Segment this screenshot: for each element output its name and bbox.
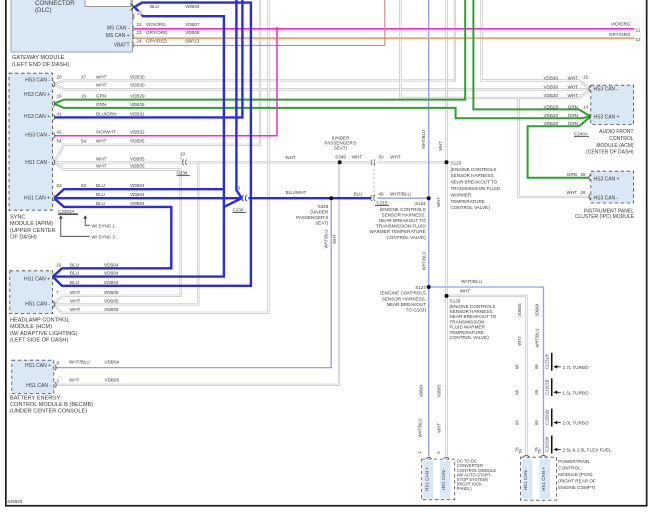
connector C215 pin 49 (371, 192, 411, 206)
svg-text:VDB05: VDB05 (104, 290, 119, 295)
ACM wire row labels (543, 75, 588, 127)
svg-text:BLU/GRN: BLU/GRN (96, 111, 116, 116)
svg-text:(ENGINE CONTROLS: (ENGINE CONTROLS (380, 291, 426, 296)
wire WHT VDB30 from top x=518.5 to IPC pin26 (519, 98, 590, 197)
svg-text:C238: C238 (177, 171, 188, 176)
svg-text:CONTROL: CONTROL (609, 136, 634, 142)
svg-text:(ENGINE CONTROLS: (ENGINE CONTROLS (380, 207, 426, 212)
svg-text:76: 76 (518, 449, 523, 454)
svg-text:VDB04: VDB04 (104, 262, 119, 267)
svg-text:C240A: C240A (574, 132, 589, 137)
svg-text:23: 23 (137, 30, 143, 35)
svg-text:TO G103): TO G103) (406, 308, 427, 313)
engine variant connector C1915B 1.5L TURBO (515, 378, 589, 396)
SYNC module (APIM) box (9, 73, 56, 240)
svg-text:HS1 CAN +: HS1 CAN + (24, 196, 50, 202)
connector C2383A (58, 209, 115, 240)
svg-text:75: 75 (537, 449, 542, 454)
svg-text:WHT: WHT (332, 234, 337, 244)
svg-text:HS1 CAN +: HS1 CAN + (424, 467, 429, 491)
svg-text:SENSOR HARNESS,: SENSOR HARNESS, (382, 296, 426, 301)
wire WHT VDB30 row3 from top x=400.4 to ACM (400, 0, 590, 98)
svg-text:W/ SYNC 3: W/ SYNC 3 (92, 234, 116, 239)
connector C238 pin 9 (233, 185, 247, 212)
svg-text:BLU: BLU (96, 192, 105, 197)
svg-text:VDB05: VDB05 (104, 298, 119, 303)
svg-text:HEADLAMP CONTROL: HEADLAMP CONTROL (10, 318, 70, 324)
svg-text:WHT: WHT (352, 154, 363, 159)
svg-text:WHT: WHT (70, 290, 81, 295)
svg-text:BLU: BLU (70, 280, 79, 285)
svg-text:(ENGINE CONTROLS: (ENGINE CONTROLS (451, 167, 497, 172)
gateway module box (left end of dash) (11, 0, 133, 68)
svg-text:53: 53 (81, 183, 87, 188)
svg-text:VIO/ORG: VIO/ORG (146, 22, 166, 27)
wire WHT VDB30 row1 SYNC pin20 turns up at x=455 (54, 0, 455, 84)
svg-text:WHT: WHT (460, 289, 471, 294)
svg-text:GATEWAY MODULE: GATEWAY MODULE (12, 55, 65, 61)
svg-text:VDB04: VDB04 (185, 4, 200, 9)
svg-text:WHT/BLU: WHT/BLU (69, 360, 90, 365)
svg-text:649993: 649993 (8, 499, 23, 504)
wire WHT VDB05 from top x=268.5 to HCM row3 (53, 0, 269, 313)
svg-text:GRY/RED: GRY/RED (146, 38, 168, 43)
svg-text:VDB32: VDB32 (130, 130, 145, 135)
svg-text:VIO/ORG: VIO/ORG (611, 22, 631, 27)
svg-text:VDB30: VDB30 (543, 93, 558, 98)
wire BLU VDB04 SYNC row3 to HCM row1 via x=171.3 (53, 198, 172, 276)
rotated labels on WHT vertical (436, 141, 443, 433)
svg-text:42: 42 (57, 130, 63, 135)
wire GRY/ORG VDB08 MS CAN + (135, 37, 635, 38)
svg-text:VDB30: VDB30 (543, 84, 558, 89)
svg-text:GRY/ORG: GRY/ORG (609, 32, 631, 37)
svg-text:WHT/BLU: WHT/BLU (323, 230, 328, 249)
svg-text:2.5L & 2.5L FLEX FUEL: 2.5L & 2.5L FLEX FUEL (563, 448, 612, 453)
svg-text:VDB05: VDB05 (104, 307, 119, 312)
svg-text:53: 53 (57, 183, 63, 188)
svg-text:19: 19 (57, 93, 63, 98)
wire WHT VDB05 branch x=339 to BECMB pin2 (55, 162, 339, 385)
wire WHT/BLU S127 to PCM pin75 (429, 287, 544, 455)
svg-text:8: 8 (57, 361, 60, 366)
engine variant connector C1551B 2.5L and 2.5L FLEX FUEL (515, 436, 612, 454)
svg-text:GRN: GRN (96, 93, 106, 98)
svg-text:VDB05: VDB05 (105, 377, 120, 382)
svg-text:68: 68 (515, 420, 520, 425)
wire WHT/BLU S348 to BECMB pin8 (55, 198, 332, 367)
svg-text:CLUSTER (IPC) MODULE: CLUSTER (IPC) MODULE (575, 214, 635, 220)
svg-text:SENSOR HARNESS,: SENSOR HARNESS, (382, 212, 426, 217)
svg-text:S125: S125 (451, 160, 462, 165)
svg-text:VDB04: VDB04 (130, 192, 145, 197)
svg-text:MODULE (HCM): MODULE (HCM) (10, 324, 52, 330)
svg-text:WHT: WHT (96, 74, 107, 79)
svg-text:WARMER: WARMER (451, 192, 472, 197)
svg-text:(CENTER OF DASH): (CENTER OF DASH) (586, 150, 634, 156)
DLC connector box (85, 0, 134, 10)
svg-text:(W/ ADAPTIVE LIGHTING): (W/ ADAPTIVE LIGHTING) (10, 331, 78, 337)
svg-text:MS CAN -: MS CAN - (107, 26, 130, 32)
wire WHT VDB05 row1 SYNC pin54 turns up at x=260 (54, 0, 260, 162)
svg-text:VDB05: VDB05 (130, 139, 145, 144)
svg-text:S348: S348 (318, 204, 329, 209)
svg-text:PASSENGER'S: PASSENGER'S (296, 215, 328, 220)
HCM pin arcs and row labels (53, 262, 119, 312)
svg-text:WHT: WHT (69, 377, 80, 382)
svg-text:VDB29: VDB29 (543, 113, 558, 118)
wire BLU VDB04 SYNC row2 into C238 pin9 (54, 198, 242, 207)
svg-text:BLU: BLU (70, 271, 79, 276)
svg-text:VDB04: VDB04 (104, 280, 119, 285)
wire WHT VDB05 branch x=198.3 to HCM row2 (53, 162, 199, 304)
svg-text:(DLC): (DLC) (35, 7, 52, 14)
svg-text:HS1 CAN +: HS1 CAN + (24, 276, 50, 282)
engine variant connector C1381B 2.0L TURBO (515, 409, 589, 427)
svg-text:MODULE (ACM): MODULE (ACM) (596, 143, 634, 149)
wire BLU VDB04 SYNC row1 tees into x=224 vertical (54, 189, 224, 198)
svg-text:HS1 CAN -: HS1 CAN - (25, 160, 50, 166)
svg-text:AUDIO FRONT: AUDIO FRONT (599, 129, 633, 135)
svg-text:2.0L TURBO: 2.0L TURBO (563, 421, 589, 426)
svg-text:VDB29: VDB29 (130, 102, 145, 107)
svg-text:VDB04: VDB04 (419, 384, 424, 398)
svg-text:WHT/BLU: WHT/BLU (421, 130, 426, 149)
svg-text:17: 17 (81, 74, 87, 79)
svg-text:SYNC: SYNC (10, 215, 26, 221)
svg-text:VBATT: VBATT (114, 42, 130, 48)
svg-text:C215: C215 (377, 200, 388, 205)
svg-text:WHT: WHT (285, 155, 296, 160)
svg-text:VDB29: VDB29 (543, 121, 558, 126)
svg-text:WHT/BLU: WHT/BLU (418, 419, 423, 438)
svg-text:SEAT): SEAT) (334, 145, 348, 150)
rotated labels on WHT/BLU vertical (418, 130, 427, 437)
wire BLU from top into C238 pin9 (236, 0, 241, 198)
svg-text:GRN: GRN (568, 113, 578, 118)
svg-text:OF DASH): OF DASH) (10, 235, 37, 241)
svg-text:VDB04: VDB04 (130, 183, 145, 188)
svg-text:20: 20 (57, 74, 63, 79)
svg-text:MS CAN +: MS CAN + (106, 33, 130, 39)
svg-text:TRANSMISSION FLUID: TRANSMISSION FLUID (451, 186, 501, 191)
wire WHT VDB05 row3 SYNC to HCM row1 (53, 162, 181, 304)
svg-text:HS1 CAN -: HS1 CAN - (26, 383, 51, 389)
svg-text:MODULE (PCM): MODULE (PCM) (558, 472, 593, 477)
svg-text:41: 41 (57, 111, 63, 116)
wire BLU/WHT C238 pin9 to S348 to C215 pin49 (249, 197, 372, 199)
svg-text:CONTROL VALVE): CONTROL VALVE) (450, 335, 490, 340)
svg-text:NEAR BREAKOUT TO: NEAR BREAKOUT TO (451, 180, 498, 185)
svg-text:GRY/ORG: GRY/ORG (146, 30, 168, 35)
svg-text:WHT: WHT (568, 93, 579, 98)
svg-text:BLU: BLU (150, 4, 159, 9)
svg-text:54: 54 (81, 139, 87, 144)
svg-text:WHT: WHT (438, 141, 443, 151)
wire BLU/GRN VDB31 SYNC pin41 turns up at x=242 (54, 0, 242, 117)
gateway pin 21 (133, 10, 143, 19)
wire BLU VDB04 DLC upper branch to HCM row3 via x=251 (53, 3, 251, 286)
gateway pin 24 labels (133, 38, 200, 47)
svg-text:VDB05: VDB05 (517, 303, 522, 317)
svg-text:VDB30: VDB30 (130, 74, 145, 79)
wire WHT/BLU VDB04 vertical top S124 S127 DC-DC pin1 (428, 0, 430, 457)
svg-text:VDB04: VDB04 (105, 360, 120, 365)
splice S127 (380, 279, 539, 347)
splice S349 (285, 136, 362, 165)
svg-text:C238: C238 (233, 207, 244, 212)
svg-text:WHT: WHT (96, 156, 107, 161)
svg-text:21: 21 (137, 10, 143, 15)
svg-text:WHT/BLU: WHT/BLU (461, 279, 482, 284)
svg-text:S127: S127 (415, 285, 426, 290)
svg-text:BLU: BLU (96, 201, 105, 206)
svg-text:BLU: BLU (70, 262, 79, 267)
wire GRN VDB29 row1 SYNC pin19 turns up at x=465 (54, 0, 465, 104)
svg-text:26: 26 (581, 190, 587, 195)
svg-text:C1381B: C1381B (544, 410, 549, 425)
gateway pin 22 labels (133, 22, 641, 33)
svg-text:69: 69 (534, 389, 539, 394)
svg-text:(RIGHT REAR OF: (RIGHT REAR OF (558, 479, 596, 484)
svg-text:WARMER TEMPERATURE: WARMER TEMPERATURE (369, 229, 425, 234)
svg-text:HS3 CAN +: HS3 CAN + (24, 114, 50, 120)
SYNC pin 20/17 labels (53, 74, 145, 87)
rotated labels on S348 drop (323, 230, 337, 249)
svg-text:NEAR BREAKOUT: NEAR BREAKOUT (387, 302, 427, 307)
svg-text:69: 69 (534, 364, 539, 369)
svg-text:NEAR BREAKOUT TO: NEAR BREAKOUT TO (379, 218, 426, 223)
wire WHT S129 to PCM pin76 (447, 296, 527, 455)
svg-text:GRN: GRN (567, 172, 577, 177)
svg-text:WHT/BLU: WHT/BLU (421, 252, 426, 271)
svg-text:(LEFT END OF DASH): (LEFT END OF DASH) (12, 62, 69, 68)
svg-text:WHT: WHT (96, 164, 107, 169)
svg-text:68: 68 (515, 364, 520, 369)
svg-text:WHT: WHT (568, 75, 579, 80)
svg-text:10: 10 (180, 151, 186, 156)
svg-text:TEMPERATURE: TEMPERATURE (451, 199, 485, 204)
svg-text:54: 54 (57, 139, 63, 144)
svg-text:7: 7 (56, 290, 59, 295)
svg-text:WHT: WHT (70, 298, 81, 303)
wire WHT VDB30 row2 SYNC to ACM (54, 84, 591, 89)
svg-text:GRN: GRN (96, 102, 106, 107)
svg-text:C2383A: C2383A (58, 209, 76, 214)
svg-text:S349: S349 (335, 154, 346, 159)
wire WHT/BLU C215 pin49 to S124 (377, 197, 429, 199)
svg-text:C1231B: C1231B (544, 354, 549, 369)
connector C238 pin 10 (177, 151, 191, 175)
SYNC pin 41 labels (53, 111, 145, 120)
svg-text:CONTROL MODULE B (BECMB): CONTROL MODULE B (BECMB) (10, 402, 93, 408)
svg-text:WHT: WHT (568, 84, 579, 89)
wire VIO/WHT VDB32 SYNC pin42 joins VIO/ORG (54, 27, 279, 136)
wire GRN VDB29 row2 SYNC to ACM jog at x=455.6 (54, 104, 591, 119)
svg-text:WHT/BLU: WHT/BLU (390, 192, 411, 197)
battery energy control module B (BECMB) box (10, 360, 93, 415)
powertrain control module (PCM) (518, 449, 596, 501)
svg-text:C1915B: C1915B (544, 380, 549, 395)
svg-text:C1551B: C1551B (544, 437, 549, 452)
instrument panel cluster (IPC) module box (575, 171, 635, 220)
wire WHT VDB05 bus SYNC to C238 pin10 (54, 161, 182, 163)
svg-text:POWERTRAIN: POWERTRAIN (558, 459, 589, 464)
svg-text:VDB04: VDB04 (104, 271, 119, 276)
svg-text:HS3 CAN -: HS3 CAN - (594, 195, 619, 201)
svg-text:VDB29: VDB29 (543, 104, 558, 109)
svg-text:CONTROL: CONTROL (558, 466, 581, 471)
svg-text:50: 50 (379, 154, 385, 159)
splice S125 (445, 160, 501, 210)
svg-text:VDB05: VDB05 (130, 164, 145, 169)
svg-text:BLU: BLU (354, 192, 363, 197)
ACM pin arcs (589, 86, 591, 120)
svg-text:HS1 CAN +: HS1 CAN + (541, 467, 546, 491)
svg-text:W/ SYNC 1: W/ SYNC 1 (92, 223, 116, 228)
svg-text:2: 2 (57, 378, 60, 383)
svg-text:GRN: GRN (568, 104, 578, 109)
svg-text:WHT: WHT (436, 197, 441, 207)
svg-text:VIO/WHT: VIO/WHT (96, 130, 116, 135)
wire WHT VDB05 vertical top to S125 S129 DC-DC pin6 (445, 0, 447, 457)
splice S124 (369, 196, 430, 240)
svg-text:22: 22 (137, 22, 143, 27)
svg-text:VDB31: VDB31 (130, 111, 145, 116)
svg-text:VDB05: VDB05 (437, 384, 442, 398)
audio front control module (ACM) box (574, 85, 634, 155)
svg-text:2.7L TURBO: 2.7L TURBO (563, 365, 589, 370)
svg-text:PANEL): PANEL) (457, 486, 472, 491)
IPC row labels and pin arcs (567, 172, 591, 200)
svg-text:19: 19 (56, 262, 62, 267)
svg-text:HS1 CAN -: HS1 CAN - (25, 302, 50, 308)
SYNC pin 19/16 labels (53, 93, 145, 107)
svg-text:49: 49 (379, 192, 385, 197)
svg-text:69: 69 (534, 420, 539, 425)
svg-text:9: 9 (238, 185, 241, 190)
svg-text:WHT: WHT (96, 139, 107, 144)
svg-text:CONTROL VALVE): CONTROL VALVE) (386, 235, 426, 240)
svg-text:ENGINE COMPT): ENGINE COMPT) (558, 485, 595, 490)
gateway pin 23 labels (133, 30, 641, 42)
wire WHT VDB05 bus C215 to S125 (377, 161, 446, 163)
svg-text:MODULE (APIM): MODULE (APIM) (10, 221, 53, 227)
SYNC pin 42 labels (53, 130, 145, 139)
svg-text:26: 26 (581, 172, 587, 177)
svg-text:WHT: WHT (517, 336, 522, 346)
wire WHT VDB30 from top x=481.6 to ACM row1 (482, 0, 591, 89)
svg-text:GRN: GRN (568, 121, 578, 126)
headlamp control module (HCM) box (10, 271, 78, 344)
svg-text:(UNDER: (UNDER (310, 210, 329, 215)
svg-text:SENSOR HARNESS,: SENSOR HARNESS, (451, 173, 495, 178)
splice S129 (445, 289, 523, 346)
svg-text:11: 11 (636, 27, 641, 32)
svg-text:HS1 CAN -: HS1 CAN - (441, 467, 446, 490)
svg-text:16: 16 (81, 93, 87, 98)
svg-text:BATTERY ENERGY: BATTERY ENERGY (10, 395, 61, 401)
svg-text:VDB08: VDB08 (185, 30, 200, 35)
wire GRN VDB29 from top x=473.4 to ACM row1 (473, 0, 590, 117)
wire GRY/RED SBP13 (135, 0, 385, 45)
svg-text:24: 24 (137, 38, 143, 43)
splice S348 (286, 190, 363, 226)
svg-text:VDB04: VDB04 (535, 303, 540, 317)
svg-text:WHT: WHT (96, 83, 107, 88)
svg-text:WHT: WHT (437, 423, 442, 433)
svg-text:HS3 CAN -: HS3 CAN - (25, 78, 50, 84)
svg-text:BLU: BLU (96, 183, 105, 188)
svg-text:68: 68 (515, 389, 520, 394)
svg-text:TRANSMISSION FLUID: TRANSMISSION FLUID (376, 224, 426, 229)
svg-text:CONTROL VALVE): CONTROL VALVE) (451, 205, 491, 210)
svg-text:HS1 CAN +: HS1 CAN + (25, 363, 51, 369)
svg-text:12: 12 (636, 37, 642, 42)
wire VIO/ORG VDB07 MS CAN - (135, 29, 635, 31)
svg-text:14: 14 (583, 104, 589, 109)
connector C215 pin 50 (371, 154, 401, 196)
svg-text:SEAT): SEAT) (315, 221, 329, 226)
svg-text:(UNDER CENTER CONSOLE): (UNDER CENTER CONSOLE) (10, 409, 87, 415)
svg-text:VDB30: VDB30 (130, 83, 145, 88)
svg-text:1.5L TURBO: 1.5L TURBO (563, 390, 589, 395)
svg-text:VDB29: VDB29 (130, 93, 145, 98)
svg-text:HS3 CAN -: HS3 CAN - (25, 133, 50, 139)
svg-text:HS1 CAN -: HS1 CAN - (523, 467, 528, 490)
SYNC pin 54/54 labels (53, 139, 145, 169)
svg-text:HS3 CAN +: HS3 CAN + (24, 92, 50, 98)
svg-text:WHT/BLU: WHT/BLU (535, 329, 540, 348)
svg-text:HS3 CAN +: HS3 CAN + (594, 115, 620, 121)
wire BLU VDB04 DLC lower branch to HCM row2 via x=224 (53, 7, 224, 277)
svg-text:VDB30: VDB30 (543, 75, 558, 80)
wire GRN VDB29 ACM row3 to IPC pin26 (528, 117, 591, 178)
svg-text:VDB04: VDB04 (130, 201, 145, 206)
svg-text:VDB07: VDB07 (185, 22, 200, 27)
svg-text:HS3 CAN +: HS3 CAN + (594, 176, 620, 182)
svg-text:(LEFT SIDE OF DASH): (LEFT SIDE OF DASH) (10, 338, 68, 344)
DC to DC converter control module (417, 451, 497, 500)
svg-text:(UPPER CENTER: (UPPER CENTER (10, 228, 56, 234)
svg-text:CONNECTOR: CONNECTOR (35, 0, 75, 7)
svg-text:VDB05: VDB05 (130, 156, 145, 161)
engine variant connector C1231B 2.7L TURBO (515, 353, 589, 371)
SYNC pin 53/53 labels (53, 183, 145, 206)
svg-text:WHT: WHT (390, 154, 401, 159)
svg-text:BLU/WHT: BLU/WHT (286, 190, 307, 195)
svg-text:HS3 CAN -: HS3 CAN - (594, 87, 619, 93)
svg-text:SBP13: SBP13 (185, 38, 200, 43)
svg-text:S124: S124 (415, 201, 426, 206)
svg-text:WHT: WHT (70, 307, 81, 312)
BECMB pin arcs and row labels (55, 360, 120, 388)
wire WHT VDB05 bus C238 to S349 to C215 pin50 (187, 161, 371, 163)
svg-text:WHT: WHT (567, 190, 578, 195)
svg-text:15: 15 (583, 75, 589, 80)
